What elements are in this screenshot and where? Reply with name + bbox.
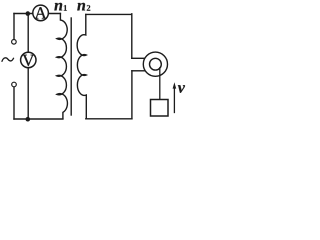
wire secondary right lower xyxy=(131,71,133,119)
node junction top xyxy=(26,11,31,16)
ammeter A1 circle xyxy=(33,5,49,21)
label n2 xyxy=(77,3,85,11)
load weight box xyxy=(151,100,169,117)
label V (voltmeter) xyxy=(22,55,34,66)
label A (ammeter) xyxy=(35,7,47,18)
wire secondary bottom xyxy=(86,118,132,120)
wire motor lower stub xyxy=(132,70,146,72)
velocity arrow v xyxy=(173,87,175,113)
wire left upper xyxy=(13,14,15,42)
label v (velocity) xyxy=(178,85,185,93)
label n1 xyxy=(54,3,62,11)
AC source terminal lower xyxy=(12,82,17,87)
AC source terminal upper xyxy=(12,40,17,45)
wire voltmeter branch xyxy=(27,14,29,120)
voltmeter V1 circle xyxy=(21,52,36,67)
node junction bottom xyxy=(26,117,31,122)
wire secondary top xyxy=(86,13,132,15)
motor M outer circle xyxy=(143,52,167,76)
wire bottom primary xyxy=(14,118,63,120)
transformer core xyxy=(70,18,72,115)
AC source tilde symbol xyxy=(2,58,14,61)
transformer primary coil n1 xyxy=(57,14,68,119)
wire top primary xyxy=(14,13,60,15)
transformer secondary coil n2 xyxy=(77,14,86,118)
motor M inner circle xyxy=(150,58,162,70)
wire secondary right upper xyxy=(131,14,133,59)
string from motor to load xyxy=(159,68,161,100)
wire motor upper stub xyxy=(132,57,146,59)
wire left lower xyxy=(13,85,15,120)
